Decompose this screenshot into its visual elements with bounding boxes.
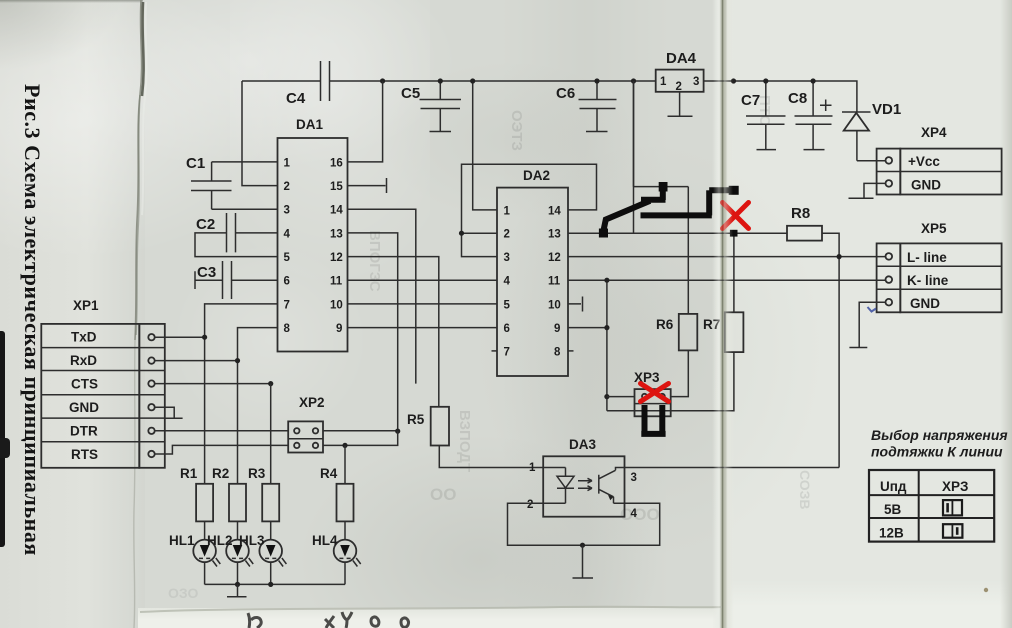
wire DA2 pin11 K-line	[568, 279, 886, 281]
wire DTR to XP2	[155, 430, 289, 432]
svg-text:XP4: XP4	[921, 125, 947, 140]
wire RTS to XP2	[155, 445, 289, 454]
svg-text:11: 11	[548, 276, 561, 288]
connector XP4	[877, 125, 1002, 195]
wire DA1 pin11 to DA2 pin4	[348, 279, 498, 281]
left spine black bar	[0, 331, 5, 547]
hand-drawn Z horizontal short	[709, 187, 733, 193]
hand-drawn diagonal link stroke	[604, 201, 651, 231]
wire C3 left stub	[195, 271, 223, 289]
svg-text:L- line: L- line	[907, 250, 947, 265]
svg-text:DA2: DA2	[523, 168, 550, 183]
ground under LEDs	[227, 596, 247, 598]
wire XP2 top row to pin13 net	[323, 430, 398, 432]
hand-drawn Z square	[729, 186, 739, 195]
DA3 emission arrows	[578, 478, 592, 490]
svg-text:TxD: TxD	[71, 329, 97, 344]
resistor R7	[703, 312, 743, 352]
hand-drawn link square on pin13 net left	[599, 229, 608, 238]
resistor R6	[656, 314, 697, 351]
capacitor C5	[401, 78, 461, 131]
svg-text:HL4: HL4	[312, 533, 338, 548]
svg-text:R4: R4	[320, 466, 338, 481]
svg-text:12В: 12В	[879, 526, 904, 541]
svg-text:13: 13	[548, 229, 561, 241]
node L-line junction	[837, 254, 842, 259]
wire DA1 pin14 to CTS net	[348, 209, 416, 383]
node rail drop	[631, 78, 636, 83]
svg-text:Выбор напряжения: Выбор напряжения	[871, 427, 1008, 443]
svg-text:2: 2	[284, 181, 290, 193]
connector XP2	[288, 395, 324, 453]
node TxD/R1	[202, 335, 207, 340]
svg-text:C8: C8	[788, 90, 807, 107]
svg-text:HL2: HL2	[207, 533, 233, 548]
svg-text:7: 7	[284, 299, 290, 311]
LED HL4	[312, 521, 361, 584]
svg-text:6: 6	[284, 276, 290, 288]
jumper icon 12V	[943, 524, 962, 538]
wire rail to DA2 pin1	[473, 81, 497, 210]
svg-text:1: 1	[529, 462, 536, 474]
hand-drawn link square top	[659, 182, 668, 192]
svg-text:HL3: HL3	[239, 533, 265, 548]
svg-text:K- line: K- line	[907, 273, 949, 288]
wire DA2 pin10 stub	[568, 297, 583, 312]
optocoupler DA3	[527, 437, 638, 520]
svg-text:CTS: CTS	[71, 376, 98, 391]
svg-text:5В: 5В	[884, 502, 902, 517]
wire DA2 pin8 stub	[568, 350, 574, 352]
wire rail drop to pin13 net	[633, 81, 635, 233]
svg-text:7: 7	[504, 346, 510, 358]
svg-text:C3: C3	[197, 264, 216, 281]
svg-text:8: 8	[554, 346, 561, 358]
wire XP5 GND to ground	[859, 302, 885, 347]
node bus HL2	[235, 582, 240, 587]
ground under DA3	[573, 577, 594, 579]
capacitor C2	[196, 213, 236, 252]
svg-text:8: 8	[284, 323, 291, 335]
wire rail to DA1 pin2	[242, 81, 278, 186]
svg-text:XP5: XP5	[921, 221, 947, 236]
node R4 tap	[342, 443, 347, 448]
svg-text:C2: C2	[196, 216, 215, 233]
svg-text:GND: GND	[69, 400, 99, 415]
wire LED common bus	[205, 583, 345, 585]
wire top rail right	[704, 81, 857, 112]
node XP3 top	[604, 394, 609, 399]
svg-text:15: 15	[330, 181, 343, 193]
wire DA2 pin12 L-line	[568, 256, 886, 258]
resistor R3	[248, 466, 279, 521]
hand-drawn cut square on pin13 net	[730, 230, 738, 237]
resistor R2	[212, 466, 246, 521]
node C7	[731, 78, 736, 83]
svg-text:GND: GND	[911, 178, 941, 193]
svg-text:C5: C5	[401, 85, 420, 102]
node RxD/R2	[235, 358, 240, 363]
red X cut mark	[723, 203, 749, 229]
svg-text:подтяжки К линии: подтяжки К линии	[871, 444, 1003, 460]
wire DA4 pin2 to ground	[679, 92, 681, 116]
svg-text:C6: C6	[556, 85, 575, 102]
svg-text:C1: C1	[186, 155, 205, 172]
wire DA2 pin14 loop to pins2,3	[462, 164, 597, 256]
wire DA1 pin6 to C3	[232, 279, 278, 281]
wire R4 drop	[344, 445, 346, 483]
svg-text:VD1: VD1	[872, 101, 901, 118]
wire DA1 pin1	[212, 161, 278, 163]
svg-text:14: 14	[548, 205, 561, 217]
resistor R1	[180, 466, 213, 521]
svg-text:5: 5	[284, 252, 291, 264]
resistor R8	[787, 205, 822, 241]
wire DA1 pin7 down to R1	[205, 304, 278, 484]
svg-text:XP3: XP3	[634, 370, 660, 385]
diode VD1	[842, 101, 901, 161]
node XP2/pin13	[395, 429, 400, 434]
DA3 internal LED	[543, 468, 574, 504]
wire DA3 pin2/pin4 loop	[508, 503, 660, 545]
svg-text:2: 2	[676, 81, 682, 93]
svg-text:16: 16	[330, 157, 343, 169]
svg-text:3: 3	[504, 252, 510, 264]
node CTS/R3	[268, 381, 273, 386]
svg-text:3: 3	[284, 205, 290, 217]
svg-text:9: 9	[554, 323, 560, 335]
svg-text:10: 10	[330, 299, 343, 311]
blue pen tick near XP5	[868, 307, 877, 312]
svg-text:2: 2	[527, 499, 533, 511]
connector XP1	[41, 298, 165, 468]
svg-text:+Vcc: +Vcc	[908, 154, 940, 169]
svg-text:R3: R3	[248, 466, 266, 481]
wire DA1 pin13 down to XP2 net	[348, 233, 398, 431]
node DA2 pin2	[459, 231, 464, 236]
node bus HL3	[268, 582, 273, 587]
svg-text:DA3: DA3	[569, 437, 596, 452]
wire R8 to L-line and DA3 pin3	[822, 233, 839, 467]
connector XP5	[877, 221, 1002, 312]
jumper icon 5V	[943, 500, 962, 515]
wire XP2 bottom row to R4 and up	[323, 431, 398, 445]
capacitor C1	[186, 155, 232, 209]
svg-text:1: 1	[504, 205, 511, 217]
node rail-pin16	[380, 78, 385, 83]
crease band	[712, 0, 734, 628]
svg-text:XPЗ: XPЗ	[942, 479, 968, 494]
capacitor C7	[741, 78, 786, 149]
svg-text:GND: GND	[910, 296, 940, 311]
IC DA2	[497, 168, 568, 376]
wire XP4 GND to ground	[864, 183, 886, 197]
svg-text:12: 12	[548, 252, 561, 264]
wire DA2 pin7 stub	[492, 350, 498, 352]
svg-text:R6: R6	[656, 317, 674, 332]
wire XP3 feed vertical	[606, 280, 608, 411]
ground under XP4	[849, 197, 874, 199]
wire TxD	[155, 336, 205, 338]
wire DA1 pin9 to DA2 pin6	[348, 327, 498, 329]
svg-text:C7: C7	[741, 92, 760, 109]
capacitor C8 polarized	[788, 78, 833, 149]
voltage regulator DA4	[656, 50, 704, 93]
capacitor C6	[556, 78, 617, 131]
svg-text:R8: R8	[791, 205, 810, 222]
hand-drawn link vertical	[660, 187, 666, 201]
capacitor C3	[197, 261, 232, 299]
wire DA2 pin2	[462, 232, 498, 234]
ground under XP1	[165, 417, 183, 419]
svg-text:XP1: XP1	[73, 298, 99, 313]
node DA3 ground	[580, 543, 585, 548]
LED HL1	[169, 521, 220, 584]
wire R7 top to pin13 net	[733, 233, 735, 312]
svg-text:12: 12	[330, 252, 343, 264]
svg-text:DA1: DA1	[296, 117, 323, 132]
svg-text:Uпд: Uпд	[880, 479, 907, 494]
LED HL2	[207, 521, 253, 584]
wire DA2 pin13 to R8	[568, 232, 787, 234]
svg-text:3: 3	[631, 472, 637, 484]
ground under XP5	[849, 347, 867, 349]
svg-text:1: 1	[284, 157, 291, 169]
svg-text:1: 1	[660, 76, 667, 88]
wire DA1 pin3	[212, 208, 278, 210]
op-amp U? IC DA1	[278, 117, 348, 352]
svg-text:4: 4	[284, 228, 291, 240]
svg-text:4: 4	[504, 276, 511, 288]
bottom white band	[138, 608, 722, 628]
capacitor C4	[286, 61, 330, 107]
wire RxD	[155, 360, 238, 362]
wire DA1 pin8 down to R2	[238, 328, 278, 484]
resistor R4	[320, 466, 354, 521]
red X over XP3	[641, 384, 669, 402]
wire DA1 pin15 stub	[348, 178, 387, 193]
hand-drawn Z wire horizontal long	[641, 212, 712, 218]
wire DA2 pin9	[568, 327, 607, 329]
wire DA1 pin12 down to R5	[348, 257, 439, 407]
svg-text:R5: R5	[407, 412, 425, 427]
svg-text:11: 11	[330, 276, 343, 288]
wire CTS	[155, 383, 271, 385]
wire GND pin	[155, 407, 175, 418]
wire R5 bottom to DA3 pin1	[439, 446, 543, 468]
svg-text:4: 4	[631, 508, 638, 520]
wire top rail left	[242, 80, 656, 82]
svg-text:3: 3	[693, 76, 699, 88]
svg-text:R1: R1	[180, 466, 198, 481]
wire rail-drop through R6 to XP3	[634, 81, 689, 397]
wire DA1 pin4 to C2	[236, 232, 278, 234]
svg-text:2: 2	[504, 229, 510, 241]
LED HL3	[239, 521, 286, 584]
ghost bleedthrough blobs (decorative)	[168, 95, 813, 601]
right edge	[1000, 0, 1012, 628]
table box	[869, 470, 994, 542]
connector XP3	[607, 370, 671, 416]
svg-text:9: 9	[336, 323, 342, 335]
wire CTS to R3	[270, 384, 272, 484]
hand-drawn Z vertical	[706, 190, 712, 215]
svg-text:C4: C4	[286, 90, 306, 107]
wire pin16 riser	[348, 81, 383, 162]
svg-text:XP2: XP2	[299, 395, 325, 410]
wire R7 bottom to XP3 bottom row	[607, 352, 734, 411]
page bottom shadow line	[140, 607, 722, 612]
svg-text:RxD: RxD	[70, 353, 97, 368]
svg-text:DTR: DTR	[70, 423, 98, 438]
tear line in paper	[135, 0, 142, 340]
wire VD1 to XP4 +Vcc	[857, 160, 886, 162]
svg-text:R2: R2	[212, 466, 229, 481]
svg-text:Рис.3 Схема электрическая прин: Рис.3 Схема электрическая принципиальная	[20, 84, 45, 556]
svg-text:RTS: RTS	[71, 447, 98, 462]
paper shading layers	[0, 0, 145, 628]
node pin9	[604, 325, 609, 330]
ground under DA4	[668, 115, 693, 117]
svg-text:5: 5	[504, 299, 511, 311]
wire DA3 ground stem	[582, 545, 584, 577]
wire C2 to DA1 pin5	[195, 233, 278, 257]
wire DA3 pin3 to L-line	[625, 467, 840, 469]
svg-text:14: 14	[330, 205, 343, 217]
handwriting at bottom	[248, 612, 409, 628]
jumper mark on XP3 (thick)	[641, 405, 665, 434]
wire bus to ground	[237, 584, 239, 596]
hand-drawn link serif	[641, 197, 666, 203]
svg-text:13: 13	[330, 228, 343, 240]
resistor R5	[407, 407, 449, 446]
svg-text:10: 10	[548, 299, 561, 311]
wire DA1 pin10 to DA2 pin5	[348, 303, 498, 305]
svg-text:HL1: HL1	[169, 533, 195, 548]
node pin11	[604, 278, 609, 283]
svg-text:DA4: DA4	[666, 50, 697, 67]
svg-text:6: 6	[504, 323, 510, 335]
DA3 phototransistor	[599, 468, 625, 504]
